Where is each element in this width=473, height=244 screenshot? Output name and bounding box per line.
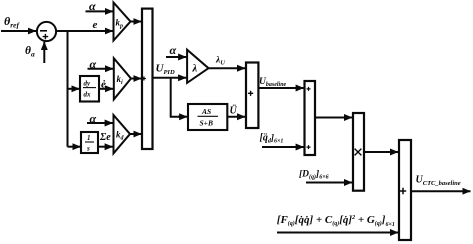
wire kd output: [130, 133, 142, 135]
svg-text:e: e: [93, 19, 98, 31]
svg-text:S+B: S+B: [200, 119, 213, 128]
svg-text:dy: dy: [84, 80, 92, 88]
plus sign inside CTC summation: [400, 188, 406, 194]
wire 1/s to kd amplifier: [98, 146, 113, 148]
summation block PID: [142, 9, 153, 149]
wire multiplication output: [364, 151, 398, 153]
wire alpha arrow into ki: [88, 68, 114, 70]
wire U_PID branch down to AS block: [171, 78, 180, 117]
integrator block 1/s: [81, 132, 98, 153]
minus sign inside summing junction: [40, 30, 47, 32]
gain amplifier kd: [114, 115, 131, 153]
wire U_baseline: [258, 87, 303, 89]
wire branch into dy/dx block: [68, 88, 80, 90]
wire branch into 1/s block: [68, 146, 81, 148]
gain amplifier ki: [114, 58, 131, 99]
wire theta_a input arrow: [43, 42, 45, 63]
svg-text:λ: λ: [192, 64, 198, 75]
wire dy/dx to ki amplifier: [99, 88, 113, 90]
plus sign inside summing junction: [43, 34, 49, 39]
transfer function block AS/(S+B): [188, 104, 227, 130]
gain amplifier kp: [114, 3, 131, 41]
wire e from summing junction to kp amplifier: [56, 30, 113, 32]
svg-text:Ü: Ü: [230, 104, 238, 117]
multiplication block D: [353, 113, 364, 191]
plus sign at PID summation input: [142, 77, 146, 81]
svg-text:s: s: [86, 145, 90, 153]
svg-text:dx: dx: [84, 91, 92, 99]
svg-text:α: α: [170, 43, 177, 57]
differentiator block dy/dx: [80, 76, 99, 102]
wire q-ddot summation output: [315, 117, 352, 119]
plus sign inside baseline summation: [248, 91, 253, 96]
summation block q-ddot: [305, 81, 316, 155]
wire ki output: [131, 78, 142, 80]
svg-text:1: 1: [87, 134, 91, 142]
wire q-ddot_d arrow: [262, 146, 304, 148]
wire friction-coriolis-gravity arrow: [277, 232, 398, 234]
wire D_(q) arrow: [306, 182, 352, 184]
wire alpha arrow into lambda: [166, 56, 186, 58]
wire e branch vertical: [67, 31, 69, 147]
wire alpha arrow into kd: [87, 122, 113, 124]
wire alpha arrow into kp: [86, 10, 114, 12]
wire theta_ref input arrow: [1, 30, 36, 32]
wire kp output: [131, 21, 142, 23]
summation block baseline: [246, 63, 258, 129]
wire AS block output: [227, 116, 245, 118]
wire lambda output: [209, 67, 246, 69]
wire U_PID to lambda amplifier: [153, 77, 187, 79]
times sign inside multiplication block: [355, 149, 362, 156]
plus sign top of q-ddot summation: [307, 87, 311, 91]
gain amplifier lambda: [187, 50, 208, 83]
plus sign bottom of q-ddot summation: [307, 145, 311, 149]
wire U_CTC_baseline output arrow: [411, 190, 471, 192]
summing junction S1: [37, 22, 56, 41]
svg-text:Σe: Σe: [99, 132, 111, 143]
svg-text:AS: AS: [201, 107, 211, 116]
summation block CTC: [399, 140, 411, 240]
